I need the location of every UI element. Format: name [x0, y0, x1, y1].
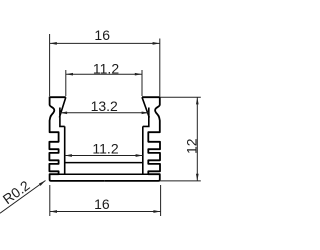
dim 16 top extension lines [49, 34, 51, 96]
svg-text:16: 16 [94, 27, 110, 43]
dim 11.2 bottom dimension line [65, 155, 143, 157]
dim 11.2 top extension lines [65, 70, 67, 96]
technical drawing: aluminium LED strip profile cross-section [0, 0, 226, 250]
dim 16 top dimension line [50, 42, 160, 44]
profile outline right half [105, 97, 160, 181]
dim 16 bottom dimension line [50, 211, 161, 213]
svg-text:13.2: 13.2 [91, 98, 118, 114]
channel floor line [65, 162, 143, 164]
svg-text:12: 12 [183, 138, 199, 154]
dim 12 extension lines [160, 96, 201, 98]
R0.2 leader line with arrow [0, 181, 46, 214]
dim 13.2 dimension line [60, 112, 149, 114]
svg-text:11.2: 11.2 [92, 141, 118, 157]
dim 12 dimension line [196, 97, 198, 181]
svg-text:11.2: 11.2 [93, 61, 119, 77]
profile outline left half [49, 97, 104, 181]
dim 16 bottom extension lines [49, 185, 51, 216]
dim 11.2 top dimension line [66, 73, 142, 75]
lip slant, groove wall, ledge, channel wall (left) [59, 97, 66, 174]
lip slant, groove wall, ledge, channel wall (right) [142, 97, 150, 174]
base top line [50, 173, 160, 175]
svg-text:16: 16 [94, 196, 110, 212]
svg-text:R0.2: R0.2 [0, 178, 32, 207]
